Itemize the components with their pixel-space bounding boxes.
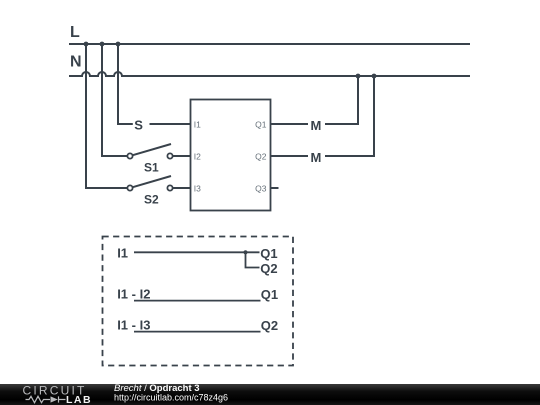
wire Q1 to M1	[271, 123, 309, 125]
wire S to I1	[150, 123, 191, 125]
svg-text:I2: I2	[194, 152, 201, 162]
wire M2 to N	[325, 76, 374, 156]
svg-text:L: L	[70, 24, 80, 41]
svg-text:S1: S1	[144, 160, 159, 174]
wire Q2 to M2	[271, 155, 309, 157]
svg-text:N: N	[70, 54, 82, 71]
svg-text:I1: I1	[194, 120, 201, 130]
svg-text:Q2: Q2	[255, 152, 267, 162]
wire M1 to N	[325, 76, 358, 124]
switch S1 blade	[133, 144, 171, 155]
svg-text:S: S	[134, 118, 143, 133]
legend branch wire to Q2	[246, 252, 260, 267]
svg-text:http://circuitlab.com/c78z4g6: http://circuitlab.com/c78z4g6	[114, 392, 228, 402]
svg-text:I1: I1	[117, 246, 128, 261]
junction dot L/v3	[116, 42, 121, 47]
legend junction dot	[243, 250, 247, 254]
switch S2 blade	[133, 176, 171, 187]
svg-text:I1 - I2: I1 - I2	[117, 287, 150, 302]
wire S2 to I3	[173, 187, 191, 189]
svg-text:I1 - I3: I1 - I3	[117, 318, 150, 333]
junction dot L/v2	[100, 42, 105, 47]
wire S1 to I2	[173, 155, 191, 157]
footer logo diode triangle	[51, 396, 58, 402]
switch S1 right contact	[167, 153, 172, 158]
switch S2 left contact	[127, 185, 132, 190]
N rail wire with hops	[69, 72, 470, 76]
switch S2 right contact	[167, 185, 172, 190]
junction dot L/v1	[84, 42, 89, 47]
svg-text:M: M	[311, 118, 322, 133]
junction dot N/M2	[372, 74, 377, 79]
svg-text:LAB: LAB	[66, 394, 92, 405]
switch S1 left contact	[127, 153, 132, 158]
svg-text:S2: S2	[144, 192, 159, 206]
logic module U1 body	[191, 100, 271, 211]
Q3 stub wire	[271, 187, 279, 189]
svg-text:Q3: Q3	[255, 184, 267, 194]
legend wire I1-I2 to Q1	[134, 300, 261, 302]
footer logo doodle: wire, resistor zigzag, diode, wire	[26, 396, 66, 402]
wire vertical from L to S1	[102, 44, 127, 156]
legend dashed box	[103, 237, 294, 366]
legend wire I1-I3 to Q2	[134, 331, 261, 333]
svg-text:Q2: Q2	[261, 318, 278, 333]
wire vertical from L to S	[118, 44, 133, 124]
svg-text:Q1: Q1	[260, 246, 277, 261]
footer bar	[0, 384, 540, 405]
svg-text:Q1: Q1	[261, 287, 278, 302]
wire vertical from L to S2	[86, 44, 127, 188]
svg-text:I3: I3	[194, 184, 201, 194]
L rail wire	[69, 43, 470, 45]
svg-text:Q1: Q1	[255, 120, 267, 130]
legend wire I1 to Q1	[134, 251, 260, 253]
svg-text:Q2: Q2	[260, 261, 277, 276]
junction dot N/M1	[356, 74, 361, 79]
svg-text:M: M	[311, 150, 322, 165]
